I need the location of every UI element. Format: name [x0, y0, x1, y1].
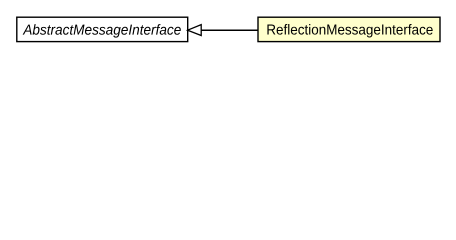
- class box ReflectionMessageInterface: [258, 17, 440, 41]
- class box AbstractMessageInterface: [17, 17, 188, 41]
- class label AbstractMessageInterface (italic, as outline paths): [23, 24, 181, 38]
- inheritance arrowhead (hollow triangle): [188, 25, 202, 36]
- wire: inheritance connector line: [201, 29, 258, 31]
- class label ReflectionMessageInterface (as outline paths): [267, 24, 432, 38]
- background: [0, 0, 456, 59]
